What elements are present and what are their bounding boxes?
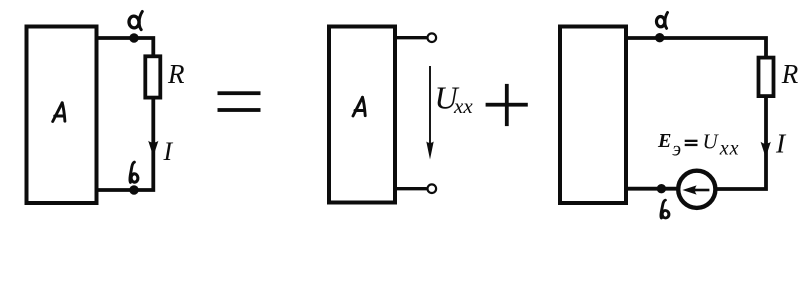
wire to bottom terminal (middle) [394,187,427,190]
source arrow (points left) [695,189,709,192]
svg-text:xx: xx [453,94,473,118]
node a (left) [129,33,138,42]
svg-text:R: R [781,59,799,89]
box A (middle network) [329,27,395,203]
box (right network, unlabeled) [560,27,626,204]
voltage arrow Uxx (middle) [429,66,431,143]
svg-text:E: E [657,130,671,152]
label b (left) [130,162,138,182]
node b (left) [129,185,138,194]
plus sign [486,103,528,107]
label a (right) [656,13,667,29]
resistor R (left) [145,56,160,97]
resistor R (right) [759,58,774,97]
wire resistor to bottom corner (right) [717,96,766,189]
wire box to source (right) [624,187,677,191]
svg-text:I: I [163,137,174,166]
node b (right) [657,184,666,193]
wire resistor to bottom (left) [96,98,153,190]
open terminal bottom (middle) [428,184,437,193]
svg-text:U: U [703,130,720,154]
wire to top terminal (middle) [394,36,427,39]
EMF source E (right) [678,171,715,208]
current arrow I (right) [761,142,771,158]
equals sign [218,91,261,95]
open terminal top (middle) [428,33,437,42]
label b (right) [661,200,669,218]
wire top-left: box to resistor [96,38,153,56]
svg-text:R: R [167,59,185,89]
node a (right) [655,33,664,42]
current arrow I (left) [148,141,158,157]
svg-text:э: э [672,139,681,161]
wire top: box to resistor (right) [624,38,766,58]
label A (left box) [53,103,65,122]
box A (left network) [27,27,97,204]
svg-text:xx: xx [719,138,740,160]
label A (middle box) [353,97,365,116]
label a (left) [129,12,143,30]
